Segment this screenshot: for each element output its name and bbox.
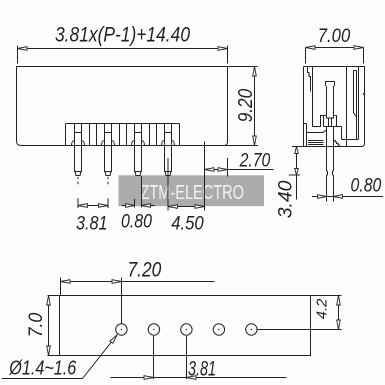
pin 4 [162,124,175,176]
dim 3.81 right arrow [99,204,109,208]
hole 1 [116,324,127,335]
hole 4 [213,324,224,335]
dim 3.81 bottom extension left [153,336,155,379]
dim 7.00 left arrow [306,46,316,50]
side crimp left step [323,116,325,127]
dim 7.00 line [306,47,364,49]
dim 4.50 left arrow [168,205,178,209]
dim header left arrow [18,47,28,51]
hole 2 [148,324,159,335]
dim 7.0 top arrow [47,296,51,306]
dim 0.80 left arrow [126,204,135,208]
pin 3 edge extension lines [135,176,142,207]
dim 4.50 right arrow [195,205,205,209]
side pin bend steps [334,141,340,147]
side inner ledge [304,124,307,147]
dim 7.0 line [48,296,50,356]
dim header extension left [17,46,19,64]
side pin columns upper [327,86,334,119]
dim 2.70 left arrow [205,168,215,172]
bottom view body [60,296,311,356]
dim 9.20 top arrow [253,67,257,77]
side body bottom edge with left extension [292,146,362,148]
dim 7.0 bottom arrow [47,346,51,356]
svg-text:7.0: 7.0 [25,313,47,338]
hole 5 [246,324,257,335]
svg-text:7.20: 7.20 [128,258,162,282]
pin 3 [132,124,145,176]
dim header right arrow [218,47,228,51]
dim 4.2 line [338,296,340,330]
dim 3.40 top arrow [295,147,299,154]
dim 7.0 extension top [48,295,60,297]
dim 4.2 bottom arrow [337,320,341,330]
svg-text:3.81x(P-1)+14.40: 3.81x(P-1)+14.40 [55,24,190,47]
side crimp right step [335,116,337,127]
side body left edge [303,67,305,147]
side right channel wall A [346,67,348,147]
dim 3.81 bottom line [111,377,287,379]
svg-text:2.70: 2.70 [239,150,271,172]
side right channel wall B [358,67,360,140]
comb top line [66,123,180,125]
side base rib 2 [308,142,324,144]
svg-text:3.81: 3.81 [188,357,216,381]
hole 3 [181,324,192,335]
dim 3.81 left arrow [78,204,88,208]
tooth 1 between pins [90,124,97,146]
side pin cap [326,82,335,87]
pin 1 centerline extension [77,177,79,208]
front body bottom edge with right extension [22,145,259,147]
side channel bottom line [342,139,359,141]
dim 7.00 extension right [363,48,365,64]
dim 0.80 line right [142,205,156,207]
side base rib 3 [308,144,324,146]
svg-text:9.20: 9.20 [235,89,257,123]
dim 0.80 side left arrow [318,195,327,199]
dim 3.81 line [78,205,108,207]
dim 7.20 extension right [121,278,123,324]
side pin crimp zone [327,118,334,127]
dim 0.80 side line [312,196,383,198]
dim 0.80 side right arrow [334,195,343,199]
dim 9.20 top extension [228,66,258,68]
front view body outline [17,67,228,146]
dim 2.70 line [205,169,274,171]
side view body outline [304,67,365,147]
dim 7.00 extension left [305,48,307,64]
svg-text:ZTM-ELECTRO: ZTM-ELECTRO [141,182,245,204]
side right channel double lines [354,71,357,140]
dim header extension right [227,46,229,64]
dim 9.20 bottom arrow [253,136,257,146]
dim 4.50 line [168,206,205,208]
dim 7.0 extension bottom [48,355,60,357]
svg-text:3.81: 3.81 [76,213,108,235]
dim 2.70 extension body edge [227,158,229,177]
side inner ledge line with diagonal [307,130,327,133]
svg-text:4.2: 4.2 [315,299,331,320]
dim 3.40 notch extension [289,174,300,176]
side crimp bottom line [324,126,342,128]
svg-text:Ø1.4~1.6: Ø1.4~1.6 [8,357,77,379]
side pin lower with notch [327,127,334,202]
dim 3.40 line [296,147,298,200]
svg-text:4.50: 4.50 [171,213,204,235]
tooth 2 between pins [120,124,127,146]
hole 5 extension line [257,329,341,331]
dim 7.20 right arrow [112,280,122,284]
dim 3.81 bottom left arrow [144,376,154,380]
dim 7.20 line [61,281,215,283]
side base rib 1 [308,140,324,142]
comb right step [179,124,181,146]
dim 3.81 bottom right arrow [187,376,197,380]
dim 0.80 line left [122,205,135,207]
svg-text:0.80: 0.80 [121,211,152,233]
side top-left notch [308,67,311,92]
dim 3.40 bottom arrow [295,169,299,176]
dim 2.70 right arrow [218,168,228,172]
dim 3.81 bottom extension right [186,336,188,379]
pin 1 [72,124,85,176]
dim 9.20 line [254,67,256,146]
svg-text:7.00: 7.00 [318,25,351,47]
dim 4.2 extension top [311,295,342,297]
watermark box [119,175,265,206]
leader underline [2,378,83,380]
dim 7.20 extension left [60,278,62,296]
dim header line [18,48,228,50]
svg-text:3.40: 3.40 [274,180,296,218]
svg-text:0.80: 0.80 [351,174,382,196]
leader arrowhead [110,335,117,344]
dim 7.20 left arrow [61,280,71,284]
tooth 3 between pins [150,124,157,146]
side inner wall [313,67,327,127]
dim 4.2 top arrow [337,296,341,306]
pin 2 [102,124,115,176]
dim 0.80 right arrow [142,204,151,208]
pin 4 centerline extension [167,158,169,211]
side right edge notch [363,93,364,95]
pin 2 centerline extension [107,177,109,208]
side step right of crimp [341,127,343,140]
dim 7.00 right arrow [354,46,364,50]
dim 2.70 extension inner [204,142,206,211]
leader diagonal [83,335,118,379]
comb left step [65,124,67,146]
